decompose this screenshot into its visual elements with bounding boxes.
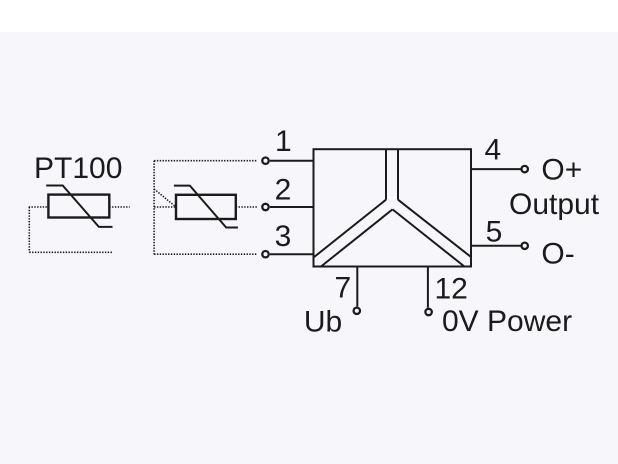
svg-text:Output: Output <box>509 188 600 221</box>
svg-text:5: 5 <box>486 215 503 248</box>
terminal circle 12 <box>425 309 431 315</box>
wire dotted to terminal 1 <box>154 160 257 162</box>
wire box to terminal 12 <box>427 267 429 308</box>
wire box to terminal 7 <box>356 267 358 307</box>
wire dotted diagonal branch <box>154 189 176 207</box>
terminal circle 1 <box>262 158 268 164</box>
svg-text:O-: O- <box>541 237 574 270</box>
wire dotted left vertical <box>153 161 155 255</box>
wire terminal 2 to box <box>270 206 314 208</box>
svg-text:12: 12 <box>435 272 468 305</box>
wire dotted RT1 left <box>29 206 49 208</box>
resistor RT2 (second PT100 sensor body) <box>176 195 236 219</box>
wire dotted to terminal 3 <box>154 253 257 255</box>
svg-text:0V Power: 0V Power <box>442 305 572 338</box>
svg-text:4: 4 <box>485 134 502 167</box>
wire dotted RT1 loop vertical <box>28 207 30 252</box>
wire dotted RT1 right <box>109 206 129 208</box>
wire box to terminal 4 <box>471 168 521 170</box>
svg-text:1: 1 <box>275 125 292 158</box>
resistor RT1 (PT100 sensor body) <box>48 195 109 218</box>
converter symbol outer-right diagonal <box>398 200 471 257</box>
wire dotted RT1 loop bottom <box>29 251 113 253</box>
converter box U1 <box>314 149 472 266</box>
wire terminal 3 to box <box>270 253 314 255</box>
svg-text:7: 7 <box>335 272 352 305</box>
svg-text:O+: O+ <box>541 153 582 186</box>
terminal circle 3 <box>262 251 268 257</box>
terminal circle 2 <box>262 204 268 210</box>
svg-text:2: 2 <box>275 174 292 207</box>
converter symbol right vertical <box>397 149 399 200</box>
wire dotted RT2 right to terminal 2 <box>236 206 257 208</box>
terminal circle 7 <box>354 308 360 314</box>
svg-text:Ub: Ub <box>304 305 342 338</box>
svg-text:3: 3 <box>275 220 292 253</box>
converter symbol inner-right diagonal <box>393 209 465 266</box>
converter symbol left vertical <box>385 149 387 200</box>
converter symbol outer-left diagonal <box>314 200 387 258</box>
wire dotted RT2 left <box>154 206 176 208</box>
resistor RT2 diagonal stroke <box>174 186 238 228</box>
wire terminal 1 to box <box>270 160 314 162</box>
resistor RT1 diagonal stroke <box>46 186 112 227</box>
svg-text:PT100: PT100 <box>34 152 122 185</box>
wire box to terminal 5 <box>471 245 521 247</box>
terminal circle 5 <box>522 243 528 249</box>
terminal circle 4 <box>522 166 528 172</box>
converter symbol inner-left diagonal <box>321 209 393 266</box>
